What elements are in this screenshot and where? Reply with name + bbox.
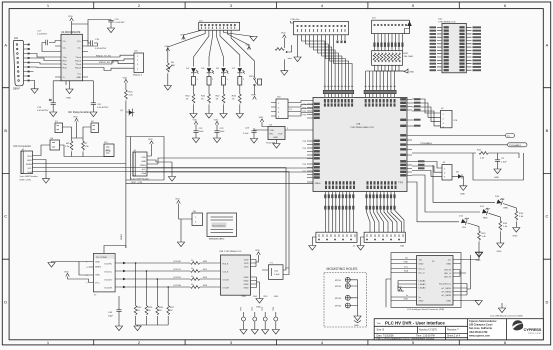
svg-text:GND: GND (244, 277, 249, 279)
ground C41 (90, 112, 97, 117)
switch SW1 (249, 76, 262, 95)
LCD left pin stubs (410, 260, 417, 301)
title block date/sheet row (377, 335, 461, 338)
LED D4 footprint (192, 73, 199, 94)
zone ticks left (2, 88, 9, 260)
ground LED2 (205, 114, 212, 119)
wire SDA long (37, 171, 290, 173)
ground C24 (494, 169, 501, 174)
svg-text:VDD: VDD (244, 263, 249, 265)
VDD for MAX232 (68, 16, 73, 21)
zone letters right (546, 43, 549, 305)
IC J5 LCD module (417, 256, 453, 306)
ground J4 (42, 179, 49, 184)
capacitor C24 (495, 153, 507, 169)
svg-text:VDD: VDD (242, 296, 247, 298)
ground J7 (79, 262, 89, 276)
VDD J7 (64, 271, 69, 276)
test point TP4 (273, 306, 278, 321)
wire DB9 pin5 to ground (30, 81, 35, 89)
svg-text:HCLK: HCLK (223, 264, 229, 266)
VDD U3 (259, 117, 264, 122)
LCD left outer labels (404, 258, 409, 301)
svg-text:C2-: C2- (77, 48, 81, 50)
ground J2 (312, 237, 316, 246)
svg-text:OCDCC: OCDCC (173, 269, 181, 271)
screw MTG4 (345, 303, 350, 308)
svg-text:uP_SEN2: uP_SEN2 (441, 292, 451, 294)
LED D11 red (482, 206, 490, 215)
wire U1A P1_4 down to yellow LED (412, 182, 459, 222)
wires U1A bottom group1 to J2 (325, 192, 353, 233)
resistor R6 (65, 138, 73, 157)
zone ticks bottom (94, 340, 460, 345)
connector J13 (372, 18, 410, 34)
LCD outer wire box (391, 253, 461, 308)
svg-text:uP_SEN1: uP_SEN1 (441, 288, 451, 290)
wire pot to ground (283, 59, 285, 70)
wire J14 fanout VDD right (227, 30, 249, 45)
wire MAX232 TX out to header (88, 55, 134, 70)
wires U1A to J9 (412, 162, 442, 177)
LED D5 (207, 68, 215, 74)
svg-text:J19: J19 (14, 37, 19, 40)
resistor R43 (232, 94, 241, 114)
wires U1A to J8 (412, 99, 441, 126)
svg-text:SDA: SDA (27, 171, 32, 174)
svg-text:I2C Relay Enable: I2C Relay Enable (68, 110, 89, 114)
svg-text:GND: GND (354, 325, 359, 327)
transistor Q1 (120, 109, 135, 117)
resistor R14 (499, 221, 508, 243)
net label specks on J3 wires (365, 194, 395, 209)
svg-text:OUT: OUT (278, 134, 283, 136)
ground C19 (50, 112, 57, 117)
svg-text:XRES: XRES (121, 234, 123, 240)
resistor R40 (186, 94, 195, 114)
wire OCDHC (126, 262, 190, 264)
LCD right wires (460, 253, 479, 301)
VDD board detect (175, 198, 180, 203)
resistor R12 (412, 150, 519, 160)
svg-text:GND: GND (497, 251, 502, 253)
svg-text:SDA: SDA (142, 172, 147, 175)
svg-text:Board Detect: Board Detect (213, 224, 226, 227)
svg-text:12v: 12v (405, 258, 408, 260)
svg-text:RS232_TX_SS: RS232_TX_SS (96, 55, 111, 57)
svg-text:0.1uF/16V: 0.1uF/16V (115, 22, 126, 24)
U1B right GND stubs (251, 277, 260, 299)
wire VDD to MAX232 and C20 (72, 20, 112, 47)
IC U1B OCD block (219, 251, 251, 295)
svg-text:XRES: XRES (95, 267, 101, 269)
svg-text:GND: GND (404, 262, 409, 264)
svg-text:U1A: U1A (356, 123, 361, 126)
LED D7 (237, 68, 245, 74)
screw MTG3 (345, 295, 350, 300)
ground U3 (276, 140, 278, 144)
wire J14 fanout LED1 (194, 30, 209, 66)
ground board detect (177, 242, 184, 247)
capacitor C17 (37, 31, 55, 52)
svg-text:VDD: VDD (27, 156, 32, 158)
svg-text:XRES: XRES (140, 165, 146, 167)
connector J5A (294, 18, 349, 35)
resistor R42 (216, 94, 225, 114)
svg-text:OCDDO: OCDDO (173, 277, 181, 279)
ground pulldown rail (137, 325, 139, 326)
svg-text:GND: GND (446, 301, 451, 303)
VDD relay (73, 116, 78, 121)
resistor R26 (156, 306, 164, 326)
wire to green LED (433, 165, 495, 202)
LCD left wires to box edge (391, 260, 410, 301)
LED D7 footprint (238, 73, 245, 94)
bottom rail pulldowns (136, 324, 169, 326)
svg-text:B: B (546, 128, 549, 133)
ground pot (164, 86, 171, 91)
wire J14 fanout gnd right (224, 30, 254, 36)
svg-text:10uF: 10uF (220, 131, 226, 133)
series resistor R22 (191, 276, 221, 280)
ground above title block (501, 303, 503, 308)
ground LED4 (236, 114, 243, 119)
svg-text:PLC HV DVR - User Interface: PLC HV DVR - User Interface (385, 321, 445, 326)
wire SDA vertical (283, 172, 289, 275)
board detect module (207, 213, 237, 241)
svg-text:ICE: ICE (454, 120, 458, 122)
svg-text:LCD USB Board Connector (J5B): LCD USB Board Connector (J5B) (490, 315, 523, 318)
svg-text:OCDDE: OCDDE (173, 285, 181, 287)
svg-text:San Jose, California: San Jose, California (469, 327, 493, 330)
ground TP1 (243, 321, 245, 329)
wire OCDDO (126, 278, 190, 280)
svg-text:CYPRESS: CYPRESS (524, 327, 542, 332)
wire J14 fanout LED2 (209, 30, 213, 66)
net flag TXDISABLE oval (412, 142, 527, 147)
test point TP2 (252, 306, 257, 321)
trimmer pot R9 (275, 45, 292, 60)
net labels row J13 wires (373, 43, 403, 47)
ground LCD bottom right (475, 301, 482, 306)
arrow marks OCD (123, 262, 126, 288)
svg-text:Lc3te: Lc3te (294, 18, 300, 21)
wires J13 to RN1 (375, 34, 403, 51)
svg-text:GND: GND (513, 236, 518, 238)
svg-text:LED_B: LED_B (444, 270, 451, 272)
svg-text:DB9-F: DB9-F (13, 88, 20, 91)
svg-text:J3A: J3A (400, 245, 404, 248)
svg-text:I2C Connector: I2C Connector (14, 144, 31, 148)
svg-text:198 Champion Court: 198 Champion Court (469, 324, 493, 327)
svg-text:GND: GND (419, 301, 424, 303)
wire J4 GND to ground (37, 160, 47, 179)
U1C left outer net labels (430, 26, 437, 71)
U1A left outer net labels (302, 104, 306, 173)
capacitor C20 (108, 19, 125, 28)
svg-text:OCDDO: OCDDO (104, 280, 112, 282)
U1A top inside pin label band group2 (365, 99, 396, 107)
svg-text:RN1: RN1 (404, 53, 409, 55)
svg-text:OCDHC: OCDHC (173, 261, 181, 263)
ground MAX232 GND pin (69, 81, 71, 89)
svg-text:OCDE: OCDE (223, 288, 230, 290)
resistor network RN1 (372, 51, 413, 66)
title block outline (374, 319, 543, 340)
svg-text:TXDISABLE: TXDISABLE (509, 144, 522, 147)
svg-text:U1B CY8C29866-OCD: U1B CY8C29866-OCD (219, 251, 242, 253)
svg-text:GND: GND (244, 284, 249, 286)
svg-text:0.1uF: 0.1uF (243, 133, 249, 135)
svg-text:CCLK: CCLK (223, 272, 229, 274)
connector J7 I2C CONN (93, 253, 115, 296)
screw MTG1 (345, 277, 350, 282)
svg-text:GND: GND (409, 72, 414, 74)
svg-text:10pF: 10pF (108, 316, 114, 318)
wire OCDDE (126, 286, 190, 288)
title block size/number/revision row (377, 329, 459, 332)
MAX232 right pin stubs (82, 41, 88, 78)
resistor R27 (167, 306, 175, 326)
svg-text:OCDHC: OCDHC (104, 264, 112, 266)
VDD XRES (123, 77, 128, 82)
VDD switch (251, 94, 256, 99)
svg-text:I2C_0: I2C_0 (419, 273, 426, 275)
wires RN1 rail down to header J12 (366, 71, 403, 85)
svg-text:Revision:**: Revision:** (447, 329, 459, 332)
wires U1A bottom group2 to J3 curved fan (367, 192, 405, 233)
wire VDD to pot R9 (283, 38, 285, 48)
wire J14 fanout LED3 (216, 30, 223, 66)
VDD arrow J13 (405, 26, 410, 34)
test point labels VDD/GND column (242, 296, 279, 298)
svg-text:VDD: VDD (263, 296, 268, 298)
resistor R24 (134, 306, 142, 326)
ground LCD top right (475, 253, 482, 258)
ground ISSP2 (171, 162, 173, 177)
wire D12 to R15 (468, 223, 480, 231)
wire J14 fanout LED4 (220, 30, 240, 66)
connector J9 3-pin (442, 162, 452, 180)
svg-text:SmartSense: SmartSense (439, 283, 452, 286)
svg-text:OCDO: OCDO (223, 280, 230, 282)
U1A right inside label column (400, 98, 406, 176)
svg-text:GRN: GRN (503, 208, 508, 210)
svg-text:Module 4: Module 4 (133, 75, 143, 77)
net stubs J5A (337, 41, 347, 44)
svg-text:RS232_RX_SS: RS232_RX_SS (99, 62, 115, 64)
connector J4 ISSP (20, 149, 38, 182)
ground flag GND right arrow (403, 69, 414, 74)
wire LCD box bottom to tp area (386, 279, 391, 307)
wire XRES vertical (125, 100, 127, 248)
svg-text:LSDA2: LSDA2 (419, 283, 427, 286)
MAX232 left pin stubs (55, 41, 61, 78)
U1A left inside label column (314, 103, 320, 179)
svg-text:0.47uF/25V: 0.47uF/25V (97, 107, 109, 109)
svg-text:I2C_0: I2C_0 (419, 269, 426, 271)
pulldown vertical wires (136, 263, 169, 306)
svg-text:Title:: Title: (377, 322, 382, 325)
svg-text:T1out: T1out (75, 56, 81, 59)
wire XRES to U1A (126, 182, 313, 184)
relay K1 (55, 121, 63, 133)
zone letters left (4, 43, 7, 305)
zone numbers top (47, 3, 507, 8)
svg-text:TP2: TP2 (252, 306, 254, 311)
svg-text:MTG3: MTG3 (335, 298, 342, 300)
svg-text:5-pin ISSP Header: 5-pin ISSP Header (20, 175, 38, 178)
svg-text:GND: GND (95, 275, 100, 277)
svg-text:LSDA1: LSDA1 (419, 280, 427, 283)
header J11 pins on U1A top group1 (323, 85, 354, 97)
svg-text:GND: GND (476, 260, 481, 262)
svg-text:MTG4: MTG4 (335, 306, 342, 308)
IC U1A CY8C29866 (313, 97, 407, 191)
svg-text:File: C:\PSOC\Backup\CY3275_U: File: C:\PSOC\Backup\CY3275_UserInterfac… (377, 338, 435, 341)
component J15 (104, 142, 114, 157)
ground TP4 (275, 321, 277, 329)
wire J14 fanout left VDD (184, 30, 202, 35)
series resistor R23 (191, 284, 221, 288)
connector J6 ISSP2 (131, 150, 149, 184)
svg-text:VCC: VCC (95, 283, 100, 285)
title block title row (377, 321, 446, 326)
svg-text:EN: EN (270, 134, 273, 136)
wires J16 to U1A (288, 101, 313, 117)
LED D12 yellow (461, 216, 469, 225)
svg-text:XRES: XRES (315, 183, 321, 185)
svg-text:XRES: XRES (26, 164, 32, 166)
svg-text:www.cypress.com: www.cypress.com (469, 334, 490, 337)
svg-text:PERFORM: PERFORM (528, 333, 541, 335)
test point TP1 (241, 306, 246, 321)
potentiometer R5 (166, 62, 175, 86)
svg-text:VDD: VDD (270, 130, 275, 132)
connector J19 DB9 (13, 37, 24, 91)
wires U1A P0 right stubs with labels (412, 120, 420, 126)
net flag TX oval (412, 134, 515, 138)
svg-text:0.47uF/25V: 0.47uF/25V (95, 48, 107, 50)
svg-text:R2in: R2in (63, 68, 68, 70)
wires RN1 to gnd rail (375, 65, 404, 71)
title block file row (377, 338, 435, 341)
svg-text:T2out: T2out (75, 63, 81, 66)
ground J5A (294, 57, 301, 62)
svg-text:GND: GND (419, 264, 424, 266)
relay K2 (91, 121, 99, 133)
U1A left pin stubs (307, 104, 313, 182)
svg-text:C: C (4, 214, 7, 219)
resistor R7 (82, 138, 90, 157)
wire SCL vertical (283, 168, 286, 271)
decoupling cap C21 (192, 119, 204, 142)
resistor R15 (478, 231, 487, 252)
svg-text:uP_SEN3: uP_SEN3 (441, 295, 451, 297)
regulator U3 (266, 124, 285, 144)
connector J2 bottom left (316, 232, 357, 247)
svg-text:GND: GND (244, 281, 249, 283)
U1C right pin stubs (466, 27, 471, 70)
IC U1C (438, 19, 466, 73)
svg-text:GND: GND (494, 177, 499, 179)
net label specks right of U1A (414, 98, 425, 169)
J7 right pin stubs (OCD wires) (115, 263, 123, 287)
svg-text:Cypress Semiconductor: Cypress Semiconductor (469, 320, 497, 323)
wire D10 to R13 (503, 204, 516, 212)
wire J4 VDD to Q3 (37, 145, 51, 156)
wire D11 to R14 (489, 213, 501, 221)
ground J14 right (250, 37, 257, 42)
svg-text:LED_G: LED_G (444, 273, 451, 275)
wire XRES into J7 (104, 246, 126, 254)
ground TP3 (264, 321, 266, 329)
wire to red LED (412, 175, 480, 212)
svg-text:GND: GND (141, 161, 146, 163)
ground U1B (256, 299, 263, 304)
IC U2 MAX232ACPE (61, 31, 82, 81)
wire relay rails (63, 122, 92, 139)
U1C left pin stubs (437, 27, 442, 70)
svg-text:C1+: C1+ (63, 41, 68, 43)
svg-text:Number:CY3276: Number:CY3276 (419, 329, 437, 332)
title block address (469, 320, 497, 337)
series resistor R20 (191, 260, 221, 264)
svg-text:GND: GND (253, 296, 258, 298)
wire Q3 transistor to rails (60, 145, 115, 157)
ground DB9 (31, 89, 38, 94)
wires J5A down fan staircase to header J11 (298, 35, 353, 85)
svg-text:OCDCC: OCDCC (104, 272, 112, 274)
J7 left pin stubs (89, 262, 94, 283)
VDD LCD left (397, 286, 402, 291)
wire XRES from J4 to pullup (37, 163, 126, 165)
series resistor R21 (191, 268, 221, 272)
svg-text:ISSP_CON: ISSP_CON (20, 180, 31, 182)
VDD J14 right (246, 44, 251, 49)
wire DB9 to MAX232 (30, 54, 55, 72)
header J12 pins on U1A top group2 (364, 85, 396, 97)
svg-text:GND: GND (27, 160, 32, 162)
connector Header4 (133, 51, 144, 77)
wire J14 fanout far left (168, 30, 205, 47)
svg-text:D: D (546, 300, 549, 305)
svg-text:LSDA3: LSDA3 (419, 287, 427, 290)
LED D6 (221, 68, 229, 74)
ground C20 (107, 28, 114, 33)
VDD ISSP2 (148, 139, 153, 144)
U1B right VDD stubs (251, 255, 259, 267)
VDD J14 left (180, 34, 185, 39)
svg-text:GND: GND (76, 77, 81, 79)
diode D9 (452, 172, 463, 186)
resistor R41 (201, 94, 210, 114)
capacitor C19 polarized (37, 81, 66, 112)
connector J16 5-pin (276, 97, 293, 119)
connector J3 bottom right (364, 232, 405, 247)
DB9 pin stubs (24, 45, 30, 81)
test point TP3 (262, 306, 267, 321)
VDD J5A (291, 21, 294, 23)
net labels OCD (173, 261, 181, 287)
ground C23 (250, 139, 257, 144)
svg-text:MOUNTING HOLES: MOUNTING HOLES (327, 267, 359, 271)
connector J8 ICE 4-pin (441, 108, 458, 129)
ground R14 (497, 243, 504, 248)
connector J10 (192, 211, 203, 226)
wire U3 out to U1A Vdd (285, 129, 313, 131)
ground R13 (513, 228, 520, 233)
